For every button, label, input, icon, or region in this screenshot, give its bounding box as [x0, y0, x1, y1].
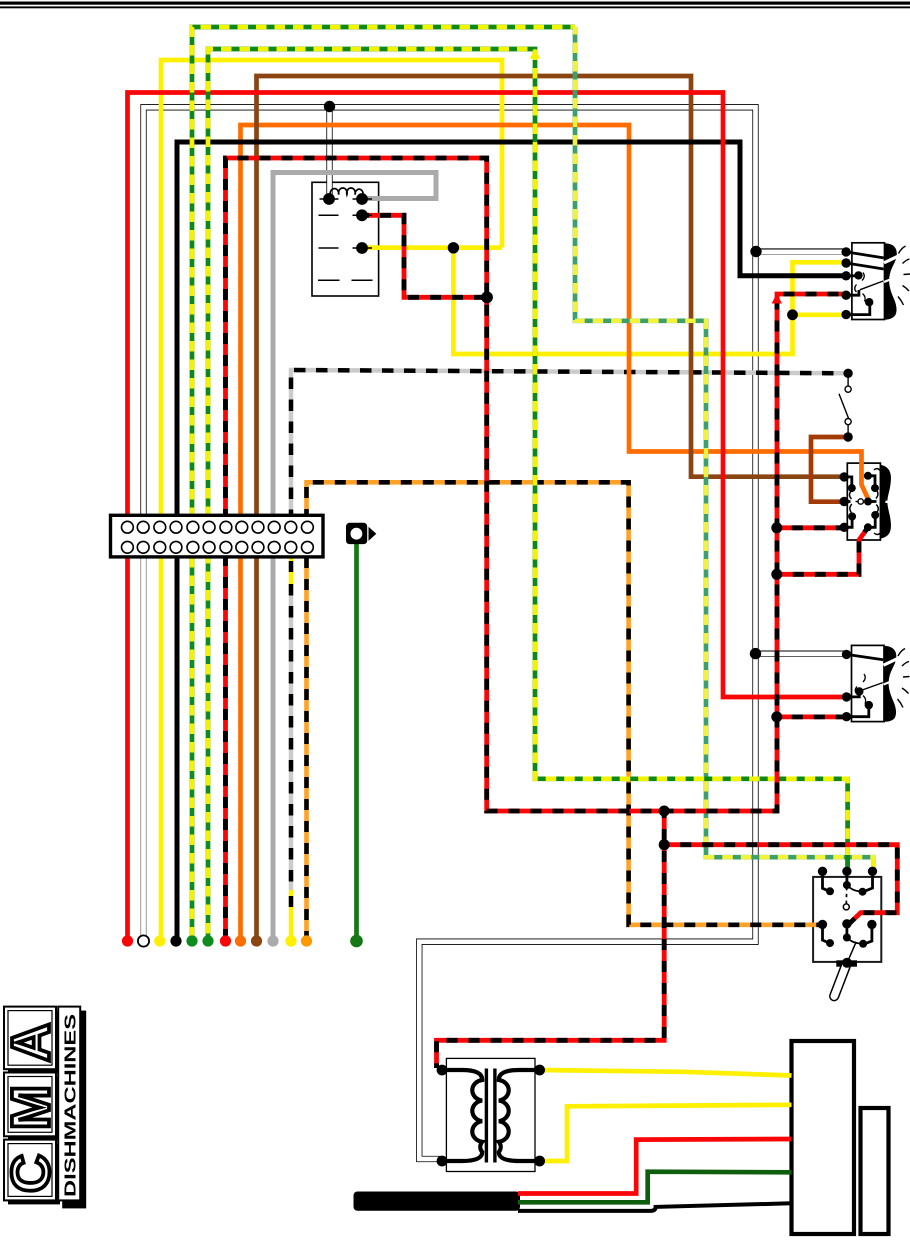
- wire end terminal brown: [251, 935, 262, 946]
- switch S4 toggle bat handle: [828, 958, 857, 1002]
- switch S2 pin 1: [840, 472, 849, 481]
- switch S3 inner contact b: [865, 701, 873, 709]
- bottom right hookup wires: [518, 1070, 792, 1211]
- switch S4 inner contact pivot: [843, 881, 851, 889]
- lid contact bottom terminal: [843, 432, 852, 441]
- switch S1 light rays: [898, 246, 910, 305]
- wire W2 white (outlined) main run: [144, 107, 847, 1160]
- black cord wire: [518, 1203, 792, 1211]
- junction white wire to S3: [750, 648, 761, 659]
- junction red/black node B: [659, 839, 670, 850]
- switch S3 pin 1: [842, 650, 851, 659]
- switch S4 inner contact pivot2: [843, 934, 851, 942]
- transformer T1 internals: [442, 1069, 540, 1163]
- arrow marker on red/black wire at S1: [772, 294, 782, 304]
- wire end terminal black: [170, 935, 181, 946]
- yellow B: transformer bottom-right to control box: [540, 1105, 792, 1161]
- wire yellow junction to S1 pin2: [453, 248, 846, 354]
- wire brown2: lid contact to S2 pin2: [811, 437, 848, 502]
- switch S1 pin 1: [841, 247, 850, 256]
- relay K1 internals: [318, 188, 373, 280]
- transformer T1 terminal bottom-left: [437, 1156, 448, 1167]
- switch S4 top pin 1: [818, 867, 827, 876]
- svg-text:C: C: [1, 1154, 61, 1193]
- wire white branch to S1 pin1: [753, 248, 846, 254]
- wire W3 yellow net: [161, 60, 846, 941]
- wire W10 gray: terminal to relay coil: [273, 173, 436, 942]
- junction yellow wire node: [448, 242, 459, 253]
- red cord wire: [518, 1139, 792, 1194]
- wire end terminal green/yellow 2: [202, 935, 213, 946]
- junction white wire to S1: [750, 246, 761, 257]
- switch S2 inner contact g: [864, 498, 872, 506]
- wire end terminal white: [138, 935, 149, 946]
- switch S4 inner contact d: [859, 940, 867, 948]
- wire end terminal green (buzzer): [350, 935, 363, 948]
- switch S3 box (lighted rocker): [852, 645, 885, 721]
- wire end terminal green/yellow 1: [186, 935, 197, 946]
- switch S4 inner contact c: [826, 939, 834, 947]
- switch S2 inner contact a: [848, 484, 856, 492]
- wire end terminal yellow: [154, 935, 165, 946]
- yellow A: transformer top-right to control box: [540, 1070, 792, 1076]
- wire orange terminal to S2 inner contact: [241, 125, 869, 515]
- wire end terminal gray: [267, 935, 278, 946]
- switch S4 inner contact b: [859, 888, 867, 896]
- wire W4 black: terminal to S1 pin3: [177, 142, 845, 941]
- wire yellow relay pin3 branch: [364, 245, 502, 250]
- switch S4 internals (toggle): [823, 871, 873, 963]
- svg-text:A: A: [1, 1023, 61, 1062]
- switch S3 pin 3: [842, 712, 851, 721]
- junction on white wire at relay coil drop: [324, 101, 335, 112]
- svg-text:M: M: [1, 1085, 61, 1130]
- wire W1 red: terminal to S3 pin2: [128, 93, 844, 942]
- CMA DISHMACHINES logo: [1, 1007, 86, 1209]
- switch S2 pin 2: [840, 497, 849, 506]
- switch S1 pin 5: [841, 310, 850, 319]
- switch S1 pin 4: [841, 291, 850, 300]
- switch S2 rocker actuator: [880, 465, 891, 539]
- control box rectangle 2: [861, 1108, 889, 1234]
- switch S1 internals: [846, 252, 884, 315]
- wire gray segment below terminal strip: [271, 557, 276, 941]
- switch S2 inner contact f: [864, 523, 872, 531]
- buzzer BZ1: [346, 523, 376, 544]
- wire W12 orange/black-dash: terminal to toggle switch: [307, 482, 821, 941]
- switch S4 top pin 3: [868, 867, 877, 876]
- switch S2 internals: [844, 469, 880, 535]
- wire W11 gray/black-dash: terminal to lid switch contact: [291, 370, 848, 941]
- svg-text:DISHMACHINES: DISHMACHINES: [63, 1014, 80, 1197]
- arrow marker on green/yellow wire at node: [530, 49, 540, 59]
- junction red/black to S2 pin3: [771, 522, 782, 533]
- wire white branch to relay coil: [326, 107, 332, 200]
- wire red terminal to S3 pin2: [128, 93, 844, 698]
- switch S3 inner contact a: [855, 687, 863, 695]
- lid contact top terminal: [843, 369, 852, 378]
- green wire from buzzer: [354, 540, 359, 941]
- wire end terminal red: [122, 935, 133, 946]
- control box rectangle 1: [792, 1041, 855, 1234]
- wire red segment below terminal strip: [125, 557, 130, 941]
- switch S3 pin 2: [842, 692, 851, 701]
- wire end terminal orange/black: [301, 935, 312, 946]
- wire white branch to S3 pin1: [753, 650, 847, 656]
- switch S4 bottom pin 2: [842, 919, 851, 928]
- arrows: [530, 49, 782, 304]
- lid switch contact (open) on gray dashed wire: [839, 375, 851, 437]
- wire W8 orange: terminal to S2: [241, 125, 869, 941]
- wire orange segment below terminal strip: [238, 557, 243, 941]
- relay K1 contact pin row2: [356, 209, 368, 221]
- wire end terminal red/black: [220, 935, 231, 946]
- junction red/black to S2 lower: [771, 569, 782, 580]
- wire brown segment below terminal strip: [254, 557, 259, 941]
- wire white main run terminal-S1-S3-transformer: [144, 107, 756, 1159]
- relay K1 coil pin left: [323, 193, 335, 205]
- switch S4 bottom pin 3: [867, 920, 876, 929]
- wire white segment below terminal strip: [140, 557, 146, 941]
- junction red/black to S3 pin3: [771, 711, 782, 722]
- relay K1 box: [312, 182, 379, 296]
- green cord wire: [518, 1172, 792, 1203]
- switch S2 inner contact d: [871, 484, 879, 492]
- wire W5 green/yellow #1: terminal to S4 top-right pin: [192, 27, 873, 941]
- switch S1 box (lighted rocker, top right): [852, 243, 885, 320]
- wire end terminal orange: [235, 935, 246, 946]
- switch S4 box (toggle switch): [813, 877, 881, 962]
- wire yellow segment below terminal strip: [159, 557, 164, 941]
- wire W9 brown: terminal to S2 pin1: [257, 76, 844, 941]
- switch S2 pin 3: [840, 523, 849, 532]
- relay K1 contact pin row3: [356, 242, 368, 254]
- wire W7 red/black-dash network: [226, 158, 898, 1068]
- switch S1 inner contact b: [865, 298, 873, 306]
- terminal strip TB1: [111, 515, 324, 557]
- switch S4 inner contact a: [826, 887, 834, 895]
- switch S2 inner contact c: [864, 472, 872, 480]
- relay K1 coil pin right: [356, 193, 368, 205]
- transformer T1 terminal top-right: [534, 1065, 545, 1076]
- switch S2 box (rocker, middle right): [847, 463, 880, 540]
- wire yellow branch to S1 pin5: [793, 312, 847, 317]
- switch S3 light rays: [898, 649, 910, 708]
- transformer T1 terminal bottom-right: [534, 1156, 545, 1167]
- wire black terminal to S1 pin3: [177, 142, 845, 515]
- wire gray terminal to relay coil right: [273, 173, 436, 516]
- junction red/black node A: [659, 806, 670, 817]
- transformer T1 box: [446, 1058, 535, 1171]
- wire brown terminal to S2 pin1: [257, 76, 844, 515]
- switch S3 rocker actuator: [884, 646, 898, 722]
- switch S4 top pin 2: [842, 867, 851, 876]
- wire end terminal yellow/black: [285, 935, 296, 946]
- switch S2 inner contact e: [871, 511, 879, 519]
- junction yellow wire to S1 pin5: [787, 309, 798, 320]
- switch S3 internals: [847, 654, 884, 716]
- power cord black bar: [354, 1192, 521, 1211]
- wire yellow terminal to relay junction: [161, 60, 502, 515]
- switch S1 pin 3: [841, 271, 850, 280]
- transformer T1 terminal top-left: [437, 1065, 448, 1076]
- switch S4 bottom pin 1: [818, 920, 827, 929]
- switch S1 pin 2: [841, 258, 850, 267]
- junction red/black wire node: [481, 291, 493, 303]
- wire black segment below terminal strip: [175, 557, 180, 941]
- switch S1 rocker actuator: [884, 243, 898, 320]
- switch S1 inner contact a: [854, 271, 862, 279]
- switch S2 inner contact b: [848, 513, 856, 521]
- wire W6 green/yellow #2: terminal to S4 top-middle pin: [208, 49, 848, 941]
